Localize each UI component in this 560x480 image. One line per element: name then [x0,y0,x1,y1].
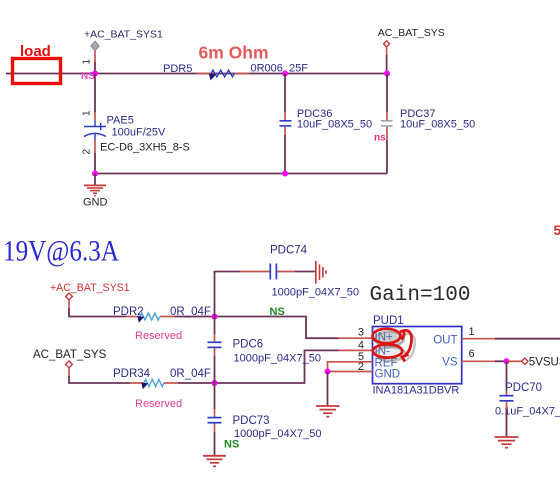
svg-text:1: 1 [82,110,93,116]
Reserved flag (PDR34) [135,398,182,410]
resistor PDR2 [113,306,175,323]
resistor PDR34 [113,368,178,389]
node AC_BAT_SYS label [33,349,107,361]
pin name IN- [375,346,391,358]
svg-text:10uF_08X5_50: 10uF_08X5_50 [297,119,372,131]
svg-text:INA181A31DBVR: INA181A31DBVR [373,385,460,397]
capacitor PDC73 [208,418,222,423]
wire REF pin [328,362,373,372]
svg-text:PDR34: PDR34 [113,368,151,380]
junction bottom rail left [92,171,98,177]
svg-text:+AC_BAT_SYS1: +AC_BAT_SYS1 [50,282,130,294]
svg-text:PDC74: PDC74 [270,245,308,257]
svg-text:GND: GND [83,197,108,209]
svg-text:100uF/25V: 100uF/25V [112,127,166,139]
NS flag (PDC73, green) [224,439,239,451]
ground (IC) [316,406,340,417]
wire port stub to PDR34 [69,368,130,383]
svg-text:AC_BAT_SYS: AC_BAT_SYS [33,349,107,361]
svg-text:1: 1 [469,326,475,338]
junction PDC36 bottom [282,171,288,177]
svg-text:10uF_08X5_50: 10uF_08X5_50 [400,119,475,131]
svg-text:1: 1 [82,59,93,65]
pin number 1 (load) [82,59,93,65]
svg-text:1000pF_04X7_50: 1000pF_04X7_50 [234,353,321,365]
pin number 5 [358,351,364,363]
wire to ground (IC) [327,372,329,406]
port +AC_BAT_SYS1 (diamond) [66,293,73,300]
wire PDC37 top lead [386,74,388,121]
part number INA181A31DBVR [373,385,460,397]
value label PAE5 [100,115,190,154]
svg-text:PDR5: PDR5 [163,63,192,75]
value label PDC74 [270,245,359,299]
svg-text:OUT: OUT [433,334,457,346]
port AC_BAT_SYS (diamond) [66,361,73,368]
wire PDC6 bottom lead [214,348,216,383]
svg-text:NS: NS [270,306,285,318]
node AC_BAT_SYS top label [378,27,445,39]
junction PDC6 bottom [212,380,218,386]
svg-text:ns: ns [374,133,386,144]
svg-text:+AC_BAT_SYS1: +AC_BAT_SYS1 [84,29,163,41]
wire port stub [386,47,388,74]
wire top rail net AC_BAT_SYS [6,73,387,75]
svg-text:AC_BAT_SYS: AC_BAT_SYS [378,27,445,39]
svg-text:6m Ohm: 6m Ohm [199,43,269,63]
pin name IN+ [375,332,394,344]
junction PDC6 top [212,314,218,320]
port 5VSUS (diamond) [522,358,528,364]
svg-text:0R006_25F: 0R006_25F [251,63,309,75]
annotation Gain=100 [370,284,471,307]
svg-text:VS: VS [442,357,458,369]
node NS flag (magenta) [81,71,95,82]
node 5VSUS label [529,356,560,368]
capacitor PDC6 [208,342,222,347]
node +AC_BAT_SYS1 label (red) [50,282,130,294]
load probe box [13,43,61,84]
pin number 1 (PAE5) [82,110,93,116]
op-amp U1 PUD1 body [373,327,462,384]
svg-text:Reserved: Reserved [135,330,182,342]
svg-text:3: 3 [358,327,364,339]
pin name REF [375,357,398,369]
value label PDC73 [233,415,322,440]
svg-text:19V@6.3A: 19V@6.3A [3,235,119,268]
svg-text:0R_04F: 0R_04F [170,368,211,380]
wire PDC37 bottom lead [386,127,388,174]
svg-text:NS: NS [224,439,239,451]
wire PDC73 bottom lead [214,424,216,456]
wire PDC36 top lead [284,74,286,121]
junction PDC36 top [282,71,288,77]
junction at load node [92,71,98,77]
svg-text:PAE5: PAE5 [107,115,134,127]
pin number 3 [358,327,364,339]
pin number 4 [358,340,364,352]
annotation 6m Ohm [199,43,269,63]
wire PDC36 bottom lead [284,127,286,174]
value label 0R006_25F [251,63,309,75]
value label PDC6 [233,339,321,365]
svg-text:GND: GND [375,369,401,381]
pin name VS [442,357,458,369]
capacitor PDC74 [270,264,276,280]
resistor PDR5 [163,63,249,80]
refdes PUD1 [373,315,404,327]
wire PDC6 top lead [214,317,216,342]
svg-text:PDC6: PDC6 [233,339,264,351]
svg-text:5: 5 [554,222,560,238]
svg-text:4: 4 [358,340,364,352]
Reserved flag (PDR2) [135,330,182,342]
pin stub from port [94,51,96,74]
annotation red circle IN- [373,344,406,360]
svg-text:PUD1: PUD1 [373,315,404,327]
capacitor PDC37 (not stuffed, gray) [381,121,393,126]
value label 0R_04F (PDR34) [170,368,211,380]
pin name GND [375,369,401,381]
ground sideways (PDC74) [316,261,326,284]
svg-text:1000pF_04X7_50: 1000pF_04X7_50 [272,287,359,299]
junction VS node [504,358,510,364]
svg-text:EC-D6_3XH5_8-S: EC-D6_3XH5_8-S [100,141,190,153]
nsi flag (red) [374,133,386,144]
NS flag (PDC74, green) [270,306,285,318]
junction REF/GND [325,369,331,375]
wire PDC73 top lead [214,383,216,417]
wire PAE5 top lead [94,74,96,121]
value label PDC70 [495,382,560,418]
node +AC_BAT_SYS1 top label [84,29,163,41]
annotation red circle IN+ [373,329,405,347]
pin name OUT [433,334,457,346]
capacitor PDC70 [500,396,514,401]
svg-text:1000pF_04X7_50: 1000pF_04X7_50 [234,428,321,440]
wire bottom rail [95,173,387,175]
annotation red arrow [400,330,415,361]
wire GND pin [328,371,373,373]
capacitor PDC36 [280,121,292,126]
pin number 2 (PAE5) [82,149,93,155]
wire VS pin 6 [462,360,507,362]
capacitor PAE5 (polarized electrolytic) [84,120,106,140]
ground (below PDC73) [203,456,226,467]
wire PDR2 to IN+ [175,317,373,339]
wire PAE5 bottom lead [94,140,96,174]
svg-text:5VSUS: 5VSUS [529,356,560,368]
port AC_BAT_SYS (red diamond) [384,41,390,47]
junction AC_BAT_SYS [384,71,390,77]
wire PDC70 bottom lead [506,402,508,437]
svg-text:PDC70: PDC70 [505,382,542,394]
pin number 6 [469,348,475,360]
port +AC_BAT_SYS1 (gray diamond) [91,41,99,51]
annotation red 5 (clipped at edge) [554,222,560,238]
wire PDC74 branch [215,272,270,317]
ground GND (top-left) [83,174,108,209]
value label PDC36 [297,108,372,131]
svg-text:Reserved: Reserved [135,398,182,410]
value label 0R_04F (PDR2) [170,306,211,318]
svg-text:2: 2 [82,149,93,155]
wire PDC70 top lead [506,361,508,395]
pin number 2 [358,361,364,373]
value label PDC37 [400,108,475,131]
svg-text:0.1uF_04X7_25: 0.1uF_04X7_25 [495,406,560,418]
wire port stub to PDR2 [69,300,126,317]
svg-text:Gain=100: Gain=100 [370,284,471,307]
wire PDR34 to IN- [178,350,373,383]
annotation 19V@6.3A [3,235,119,268]
svg-text:PDC73: PDC73 [233,415,270,427]
ground (PDC70) [495,437,519,448]
wire OUT pin 1 [462,338,560,340]
svg-text:6: 6 [469,348,475,360]
wire VS to 5VSUS port [507,360,522,362]
wire PDC74 right lead [277,271,315,273]
pin number 1 [469,326,475,338]
